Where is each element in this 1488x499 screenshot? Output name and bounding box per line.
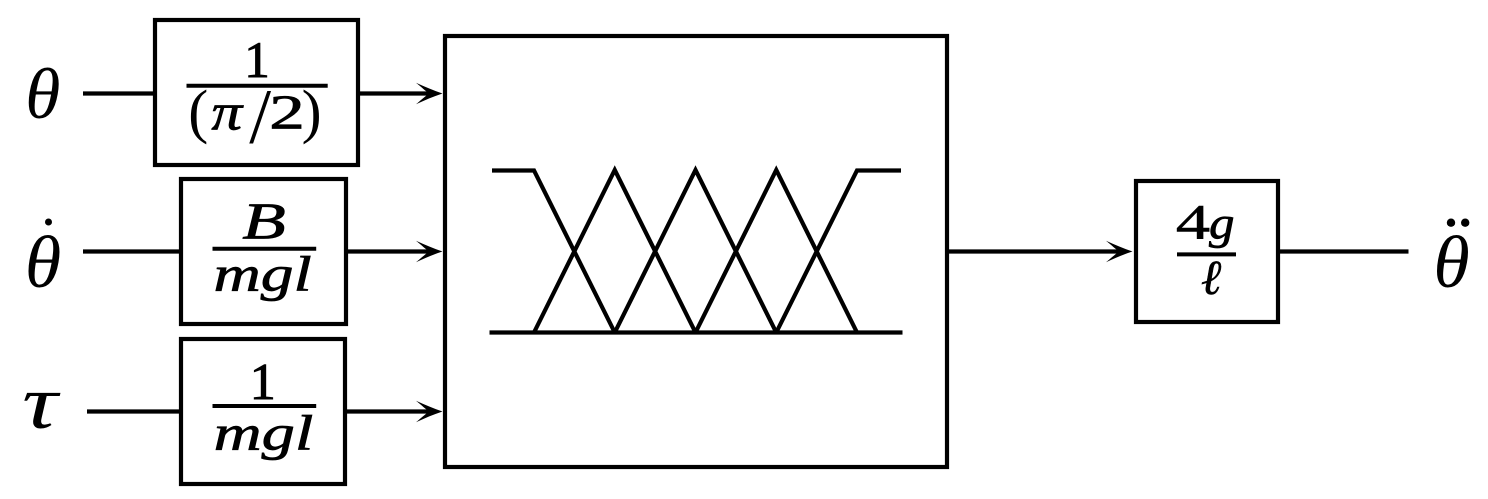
svg-text:mgl: mgl (213, 246, 311, 302)
svg-text:ℓ: ℓ (1201, 250, 1222, 305)
block gain B/mgl box B2 (181, 179, 346, 324)
node theta-dot input label (25, 219, 61, 305)
wire arrow box B2 to fuzzy block (346, 249, 430, 253)
label B4 fraction bar (1177, 252, 1236, 256)
block gain 4g/l box B4 (1136, 181, 1278, 322)
membership function left shoulder (492, 171, 615, 333)
block fuzzy controller box (445, 36, 947, 467)
label B3 fraction bar (213, 404, 317, 408)
wire theta input (83, 91, 156, 95)
svg-text:θ: θ (25, 222, 61, 304)
svg-text:1: 1 (250, 354, 276, 411)
node theta-double-dot output label (1433, 219, 1469, 305)
membership function triangle 3 (696, 170, 858, 333)
label B1 fraction bar (187, 84, 328, 88)
svg-text:θ: θ (1433, 222, 1469, 304)
wire theta-dot input (83, 249, 182, 253)
wire tau input (87, 409, 182, 413)
block gain 1/(pi/2) box B1 (155, 20, 358, 165)
wire output (1278, 249, 1409, 253)
svg-text:2: 2 (269, 86, 305, 140)
arrowhead into fuzzy block row 2 (416, 241, 443, 262)
svg-text:π: π (211, 84, 243, 142)
svg-text:): ) (302, 79, 322, 145)
svg-text:/: / (249, 72, 271, 159)
svg-text:(: ( (188, 79, 208, 145)
arrowhead into fuzzy block row 3 (416, 401, 443, 422)
block gain 1/mgl box B3 (181, 339, 345, 484)
arrowhead into gain 4g/l box (1106, 241, 1133, 262)
membership function triangle 1 (534, 170, 696, 333)
svg-text:4: 4 (1176, 194, 1210, 249)
label B2 fraction bar (213, 247, 317, 251)
wire arrow fuzzy block to gain 4g/l (949, 249, 1121, 253)
wire arrow box B3 to fuzzy block (345, 409, 430, 413)
membership function baseline (490, 330, 903, 334)
svg-text:mgl: mgl (214, 405, 314, 460)
svg-text:g: g (1209, 198, 1235, 249)
wire arrow box B1 to fuzzy block (358, 91, 430, 95)
arrowhead into fuzzy block row 1 (416, 83, 443, 104)
svg-text:θ: θ (25, 55, 60, 134)
svg-text:B: B (242, 193, 286, 251)
membership function triangle 2 (615, 170, 777, 333)
membership function right shoulder (776, 171, 901, 333)
svg-text:τ: τ (22, 361, 61, 446)
